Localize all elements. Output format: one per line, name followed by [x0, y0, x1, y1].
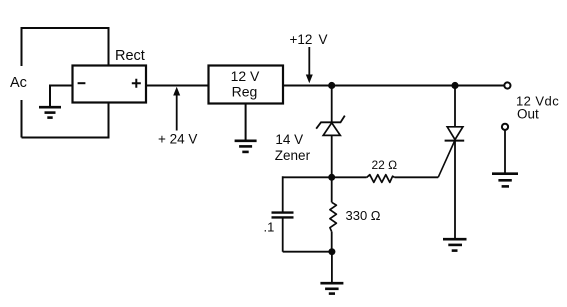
wire node B to 22 ohm resistor — [332, 176, 367, 178]
wire rail to zener — [331, 86, 333, 123]
wire AC loop left upper — [21, 27, 23, 66]
svg-text:.1: .1 — [264, 220, 275, 235]
wire rail to SCR anode — [454, 86, 456, 127]
label Zener — [275, 148, 311, 163]
wire zener to node B — [331, 135, 333, 177]
wire main +12V rail — [283, 85, 504, 87]
zener diode 14V cathode bar — [316, 116, 345, 129]
svg-text:330 Ω: 330 Ω — [346, 208, 381, 223]
label .1 — [264, 220, 275, 235]
svg-text:Out: Out — [517, 107, 539, 122]
ground G2 — [235, 141, 257, 152]
label 12 V (regulator) — [231, 68, 260, 84]
wire SCR cathode to ground — [454, 141, 456, 240]
ground G3 — [320, 283, 343, 293]
SCR cathode bar — [445, 140, 465, 142]
rectifier minus terminal — [78, 82, 86, 84]
wire AC loop right upper — [108, 27, 110, 66]
wire bottom terminal to ground — [504, 130, 506, 174]
svg-text:+ 24 V: + 24 V — [158, 132, 197, 147]
junction node B — [328, 174, 335, 181]
svg-text:14 V: 14 V — [275, 132, 303, 147]
ground G4 — [443, 239, 467, 250]
label 12 Vdc — [516, 94, 559, 109]
ground G5 — [492, 174, 518, 187]
resistor 22 ohm (horizontal zigzag) — [367, 175, 395, 183]
label +24 V — [158, 132, 197, 147]
svg-text:Reg: Reg — [232, 84, 258, 100]
wire capacitor to bottom — [283, 217, 332, 251]
junction node A (zener branch) — [328, 82, 335, 89]
svg-text:+12: +12 — [290, 32, 313, 47]
label Reg (regulator) — [232, 84, 258, 100]
node label Ac — [10, 75, 27, 91]
wire AC loop bottom — [22, 137, 109, 139]
label 22 ohm — [372, 158, 398, 172]
svg-text:V: V — [319, 32, 328, 47]
output terminal bottom (circle) — [502, 124, 508, 130]
label 330 ohm — [346, 208, 381, 223]
wire AC loop left lower — [21, 100, 23, 138]
arrow +12V pointing down — [306, 47, 313, 83]
SCR Q1 triangle — [447, 127, 463, 140]
junction node D (SCR anode) — [451, 82, 458, 89]
resistor 330 ohm (vertical zigzag) — [330, 180, 337, 252]
svg-text:Ac: Ac — [10, 75, 27, 91]
capacitor C1 value .1 plates — [272, 213, 294, 218]
rectifier plus terminal — [132, 79, 141, 88]
zener diode 14V triangle — [323, 123, 340, 136]
SCR gate lead (diagonal) — [438, 141, 454, 177]
junction node C — [328, 248, 335, 255]
svg-text:Rect: Rect — [115, 48, 145, 64]
svg-text:22 Ω: 22 Ω — [372, 158, 398, 172]
svg-text:12 V: 12 V — [231, 68, 260, 84]
label 14 V — [275, 132, 303, 147]
ground G1 — [39, 107, 61, 117]
arrow +24V pointing up — [173, 87, 180, 131]
label +12 V — [290, 32, 328, 47]
regulator box 12 V Reg — [209, 66, 284, 104]
wire node B to capacitor branch — [283, 176, 332, 212]
svg-text:Zener: Zener — [275, 148, 311, 163]
wire 22 ohm to SCR gate — [395, 176, 438, 178]
wire AC loop top — [22, 27, 109, 29]
wire rectifier output to regulator — [146, 85, 209, 87]
wire rectifier minus to ground — [50, 85, 73, 108]
rectifier box Rect — [73, 66, 147, 103]
wire AC loop right lower — [108, 102, 110, 139]
wire node C to ground — [331, 252, 333, 284]
label Out — [517, 107, 539, 122]
output terminal top (circle) — [504, 82, 510, 88]
label Rect — [115, 48, 145, 64]
wire regulator to ground — [245, 104, 247, 142]
